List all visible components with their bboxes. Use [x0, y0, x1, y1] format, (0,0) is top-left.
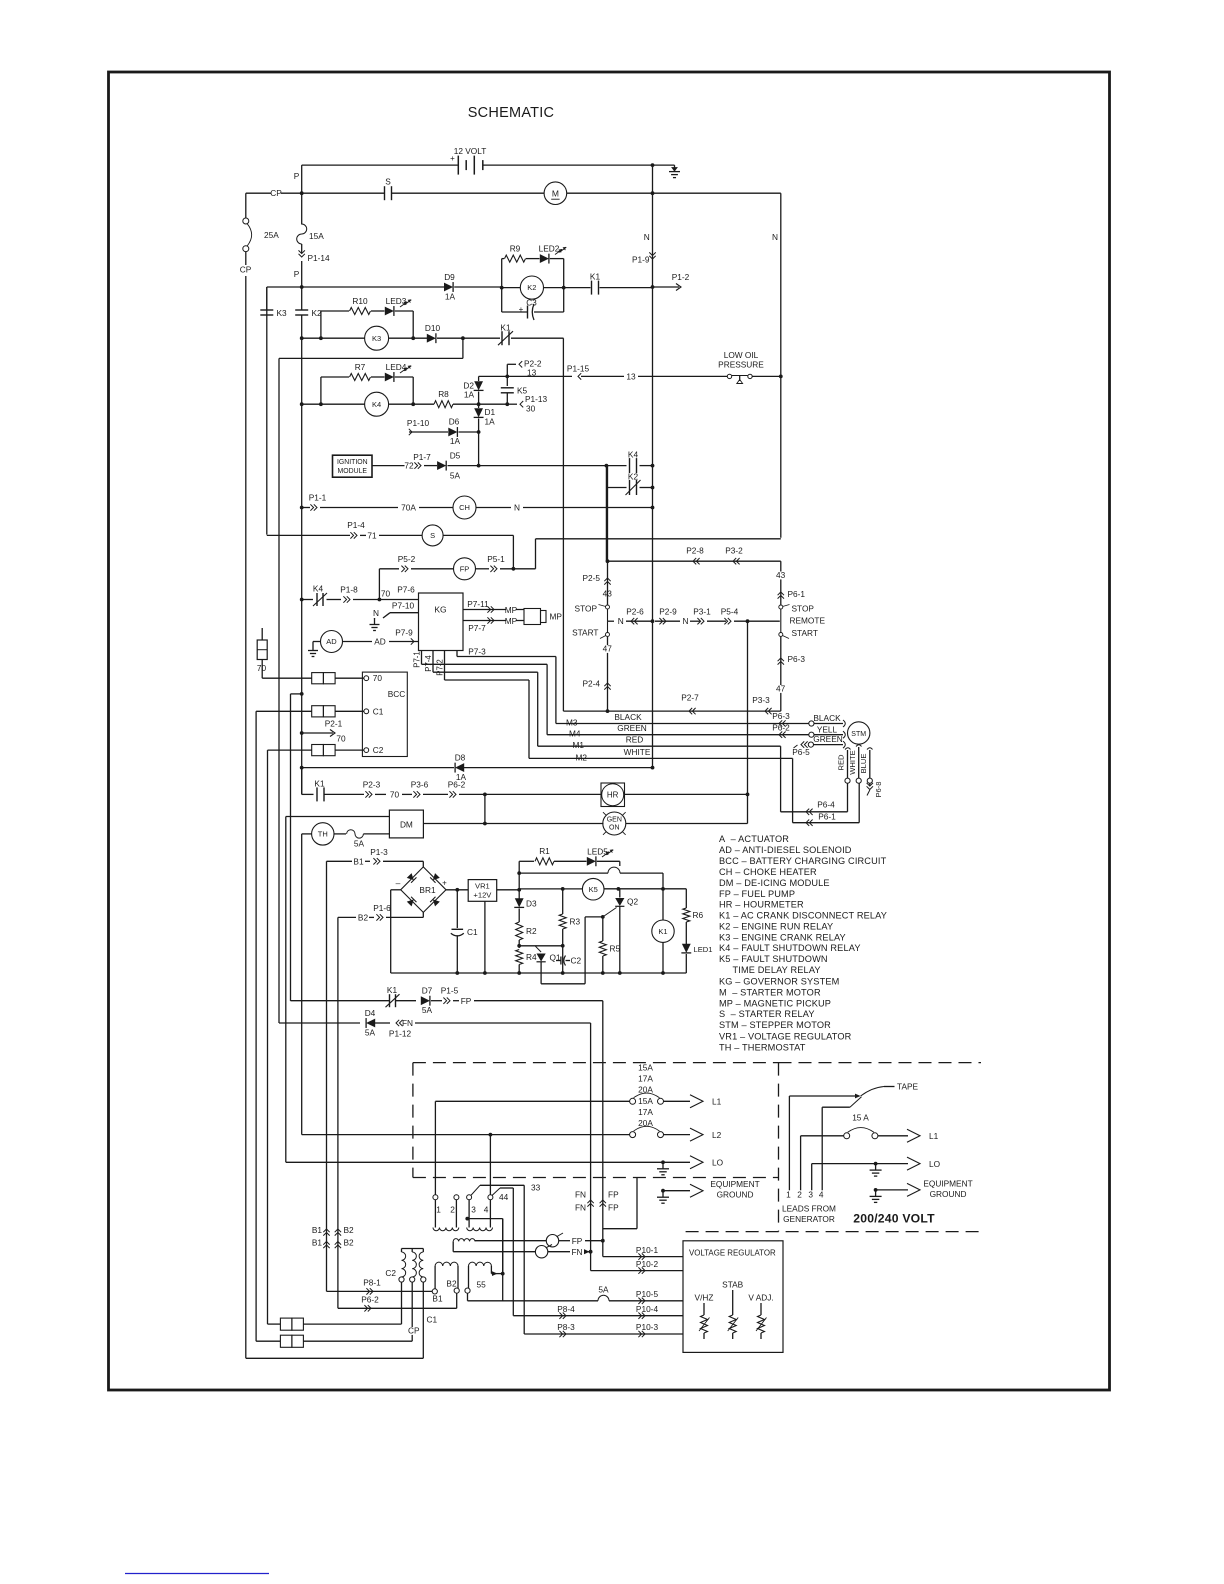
- relay K3 branch R10 LED3: [320, 311, 322, 338]
- wire P10-5 tap: [465, 1217, 469, 1221]
- svg-text:3: 3: [808, 1190, 813, 1200]
- LED1: [682, 944, 691, 953]
- svg-text:P1-8: P1-8: [340, 585, 358, 595]
- box IGNITION MODULE: [333, 455, 373, 477]
- svg-text:Q2: Q2: [627, 897, 638, 907]
- resistor R6: [685, 889, 687, 908]
- wire P2-8 P3-2 row: [608, 560, 781, 562]
- wire K3 step down: [462, 338, 464, 358]
- equipment ground row left: [661, 1189, 665, 1193]
- svg-text:K4: K4: [372, 400, 381, 409]
- anti-diesel AD: [312, 644, 314, 651]
- svg-text:R6: R6: [693, 910, 704, 920]
- svg-text:FP: FP: [608, 1190, 619, 1200]
- terminal block CP2: [256, 1340, 280, 1342]
- svg-text:P7-7: P7-7: [468, 623, 486, 633]
- wire FP feed row K1 D7: [291, 1000, 390, 1002]
- svg-text:15 A: 15 A: [852, 1113, 869, 1123]
- wire K5 row: [519, 872, 608, 874]
- wire P10-2 row: [590, 1252, 592, 1271]
- svg-text:K2 – ENGINE RUN RELAY: K2 – ENGINE RUN RELAY: [719, 922, 833, 932]
- svg-text:13: 13: [626, 371, 636, 381]
- svg-text:N: N: [373, 608, 379, 618]
- svg-text:P1-9: P1-9: [632, 255, 650, 265]
- svg-text:15A: 15A: [638, 1063, 653, 1073]
- svg-text:L1: L1: [712, 1097, 722, 1107]
- magnetic pickup MP symbol: [524, 609, 541, 625]
- connector P6-8: [869, 783, 871, 786]
- svg-text:70: 70: [381, 589, 391, 599]
- starter relay S: [422, 525, 443, 546]
- wire M row: [246, 192, 384, 194]
- switch STOP REMOTE START: [780, 561, 782, 604]
- svg-text:55: 55: [477, 1279, 487, 1289]
- svg-text:70: 70: [373, 673, 383, 683]
- svg-text:STOP: STOP: [792, 604, 815, 614]
- stepper GREEN connector P6-5: [794, 745, 798, 748]
- svg-text:MP: MP: [505, 605, 518, 615]
- svg-text:N: N: [514, 502, 520, 512]
- wire 33 tap: [471, 1185, 480, 1195]
- LED4: [385, 373, 394, 382]
- svg-text:R10: R10: [352, 296, 368, 306]
- svg-text:FN: FN: [402, 1018, 413, 1028]
- svg-text:STM – STEPPER MOTOR: STM – STEPPER MOTOR: [719, 1020, 831, 1030]
- svg-text:P1-1: P1-1: [309, 493, 327, 503]
- transformer winding C2 coils: [402, 1252, 406, 1277]
- wire K4 row: [300, 402, 304, 406]
- connector P1-14: [299, 254, 305, 257]
- current sensor FN: [453, 1251, 535, 1253]
- svg-text:C1: C1: [427, 1315, 438, 1325]
- svg-text:P6-4: P6-4: [817, 799, 835, 809]
- wire BR1 positive to VR1: [446, 889, 468, 891]
- svg-text:P7-9: P7-9: [395, 628, 413, 638]
- capacitor C2: [560, 957, 562, 965]
- bridge rectifier BR1: [422, 861, 424, 867]
- svg-text:L1: L1: [929, 1131, 939, 1141]
- svg-text:STAB: STAB: [722, 1280, 744, 1290]
- svg-text:1A: 1A: [450, 436, 461, 446]
- diode D2: [478, 376, 480, 381]
- wire S to FP junction: [512, 535, 514, 568]
- wire DM top feed: [285, 817, 287, 1163]
- transformer winding 3-4: [467, 1195, 472, 1200]
- svg-text:R5: R5: [610, 944, 621, 954]
- svg-text:5A: 5A: [422, 1005, 433, 1015]
- svg-text:BCC – BATTERY CHARGING CIRCUIT: BCC – BATTERY CHARGING CIRCUIT: [719, 856, 887, 866]
- svg-text:P8-4: P8-4: [557, 1304, 575, 1314]
- svg-text:MODULE: MODULE: [338, 468, 368, 475]
- svg-text:P6-1: P6-1: [788, 589, 806, 599]
- svg-text:IGNITION: IGNITION: [337, 459, 368, 466]
- svg-text:BLACK: BLACK: [614, 712, 642, 722]
- page border frame: [109, 72, 1110, 1390]
- wire P7-2 to M2: [445, 679, 530, 681]
- current sensor FP: [475, 1240, 546, 1242]
- contact K2 run: [605, 466, 607, 488]
- dashed generator box right: [779, 1062, 982, 1064]
- fuel pump FP: [454, 558, 476, 580]
- terminal block CP1: [268, 1323, 281, 1325]
- KG bottom pins P7-1 P7-4 P7-2 P7-3: [421, 651, 423, 665]
- svg-text:D6: D6: [449, 417, 460, 427]
- svg-text:P10-3: P10-3: [636, 1322, 659, 1332]
- svg-text:LED4: LED4: [386, 362, 407, 372]
- svg-text:43: 43: [603, 589, 613, 599]
- diode D5: [437, 461, 446, 470]
- svg-text:5A: 5A: [450, 471, 461, 481]
- svg-text:C1: C1: [373, 706, 384, 716]
- wire FP up to N: [535, 539, 537, 569]
- wire B1 link: [327, 1290, 433, 1292]
- svg-text:71: 71: [367, 531, 377, 541]
- svg-text:M1: M1: [573, 740, 585, 750]
- svg-text:FP: FP: [572, 1236, 583, 1246]
- wire LO row: [286, 1161, 690, 1163]
- fuse 5A thermostat: [347, 830, 364, 838]
- svg-text:CP: CP: [270, 188, 282, 198]
- svg-text:70: 70: [390, 790, 400, 800]
- wire 72 P1-7: [372, 465, 405, 467]
- svg-text:25A: 25A: [264, 230, 279, 240]
- relay coil K2: [520, 276, 543, 299]
- terminal block 2: [312, 706, 324, 717]
- svg-text:K4: K4: [313, 584, 324, 594]
- svg-text:LO: LO: [929, 1159, 941, 1169]
- svg-text:15A: 15A: [638, 1096, 653, 1106]
- svg-text:GEN: GEN: [607, 817, 622, 824]
- svg-text:BR1: BR1: [419, 885, 436, 895]
- svg-text:TIME DELAY RELAY: TIME DELAY RELAY: [719, 965, 821, 975]
- svg-text:B1: B1: [312, 1238, 323, 1248]
- wire BCC 70 row: [262, 677, 312, 679]
- svg-text:MP: MP: [505, 616, 518, 626]
- svg-text:44: 44: [499, 1192, 509, 1202]
- svg-text:1: 1: [436, 1205, 441, 1215]
- svg-text:VR1: VR1: [475, 881, 490, 890]
- relay coil K4: [365, 392, 389, 416]
- svg-text:P6-3: P6-3: [788, 654, 806, 664]
- relay K2 box branch R9 LED2: [501, 259, 503, 312]
- svg-text:P3-1: P3-1: [693, 607, 711, 617]
- wire LO right: [812, 1163, 908, 1165]
- svg-text:K3: K3: [372, 334, 381, 343]
- voltage regulator box: [683, 1241, 783, 1353]
- svg-text:M3: M3: [566, 718, 578, 728]
- ground top right: [674, 165, 676, 172]
- svg-text:P7-2: P7-2: [436, 659, 445, 675]
- svg-text:70A: 70A: [401, 502, 416, 512]
- svg-text:1A: 1A: [485, 417, 496, 427]
- svg-text:P1-6: P1-6: [373, 903, 391, 913]
- svg-text:LOW OIL: LOW OIL: [724, 350, 759, 360]
- svg-text:WHITE: WHITE: [624, 747, 651, 757]
- breaker L2 row: [302, 1134, 630, 1136]
- svg-text:YELL: YELL: [817, 724, 838, 734]
- wire stop start ladder left: [607, 466, 609, 605]
- svg-text:K5 – FAULT SHUTDOWN: K5 – FAULT SHUTDOWN: [719, 954, 828, 964]
- svg-text:D10: D10: [425, 323, 441, 333]
- svg-text:P1-14: P1-14: [308, 253, 331, 263]
- svg-text:EQUIPMENT: EQUIPMENT: [923, 1179, 972, 1189]
- wire P7-1 to M4: [422, 663, 548, 665]
- lamp GEN ON: [603, 812, 626, 835]
- ground LO: [662, 1162, 664, 1169]
- svg-text:P3-3: P3-3: [752, 695, 770, 705]
- svg-text:K1 – AC CRANK DISCONNECT RELAY: K1 – AC CRANK DISCONNECT RELAY: [719, 911, 887, 921]
- wire B1 row P1-3: [326, 861, 328, 1291]
- svg-text:72: 72: [404, 461, 414, 471]
- svg-text:WHITE: WHITE: [848, 750, 857, 774]
- svg-text:HR: HR: [607, 791, 619, 800]
- fuse 15A: [297, 224, 307, 244]
- battery charging circuit BCC box: [362, 672, 407, 756]
- resistor R1 row: [519, 860, 534, 862]
- connector P6-4 row: [780, 746, 782, 812]
- breaker L1 row: [435, 1100, 629, 1102]
- svg-text:STOP: STOP: [575, 604, 598, 614]
- wire BCC C1 row: [255, 711, 257, 1341]
- svg-text:P2-5: P2-5: [582, 573, 600, 583]
- svg-text:P7-3: P7-3: [468, 647, 486, 657]
- svg-text:FP – FUEL PUMP: FP – FUEL PUMP: [719, 889, 795, 899]
- switch TAPE: [789, 1095, 858, 1097]
- svg-text:17A: 17A: [638, 1074, 653, 1084]
- svg-text:CP: CP: [240, 265, 252, 275]
- wire 44 tap: [492, 1188, 500, 1196]
- wire P8-3 P10-3 row: [524, 1333, 683, 1335]
- svg-text:P2-9: P2-9: [659, 607, 677, 617]
- svg-text:P1-12: P1-12: [389, 1029, 412, 1039]
- svg-text:TH: TH: [318, 830, 328, 839]
- svg-text:P1-13: P1-13: [525, 394, 548, 404]
- svg-text:B1: B1: [312, 1225, 323, 1235]
- contact K1 crank: [463, 337, 500, 339]
- svg-text:TAPE: TAPE: [897, 1082, 919, 1092]
- svg-text:D9: D9: [444, 272, 455, 282]
- diode D9: [444, 283, 453, 292]
- svg-text:CH: CH: [459, 503, 470, 512]
- svg-text:BCC: BCC: [388, 689, 406, 699]
- svg-text:P2-7: P2-7: [681, 693, 699, 703]
- svg-text:GROUND: GROUND: [930, 1189, 967, 1199]
- svg-text:P1-5: P1-5: [441, 986, 459, 996]
- svg-text:A – ACTUATOR: A – ACTUATOR: [719, 834, 789, 844]
- svg-text:K1: K1: [658, 927, 667, 936]
- svg-text:K5: K5: [589, 885, 598, 894]
- wire 47 column: [607, 637, 609, 711]
- svg-text:P6-1: P6-1: [818, 811, 836, 821]
- svg-text:R4: R4: [526, 952, 537, 962]
- wire +12V node column: [517, 888, 521, 892]
- wire FN feed row D4: [278, 1022, 280, 1024]
- svg-text:ON: ON: [609, 825, 620, 832]
- svg-text:P2-1: P2-1: [325, 719, 343, 729]
- svg-text:AD: AD: [326, 637, 337, 646]
- wire K1 P2-3 row: [301, 768, 303, 795]
- svg-text:P7-4: P7-4: [424, 655, 433, 672]
- wire B2 link: [338, 1307, 457, 1309]
- svg-text:FN: FN: [571, 1247, 582, 1257]
- svg-text:K4: K4: [628, 450, 639, 460]
- svg-text:P: P: [294, 269, 300, 279]
- svg-text:START: START: [792, 628, 818, 638]
- svg-text:C2: C2: [373, 745, 384, 755]
- de-icing module DM: [389, 810, 423, 838]
- svg-text:43: 43: [776, 570, 786, 580]
- svg-text:FN: FN: [575, 1203, 586, 1213]
- svg-text:DM – DE-ICING MODULE: DM – DE-ICING MODULE: [719, 878, 830, 888]
- wire P7-3 to M3: [457, 656, 556, 658]
- wire N bus right: [780, 193, 782, 538]
- svg-text:S: S: [385, 177, 391, 187]
- svg-text:P2-6: P2-6: [626, 607, 644, 617]
- svg-text:P10-5: P10-5: [636, 1289, 659, 1299]
- svg-text:+: +: [442, 879, 447, 888]
- svg-text:REMOTE: REMOTE: [790, 616, 826, 626]
- svg-text:K3 – ENGINE CRANK RELAY: K3 – ENGINE CRANK RELAY: [719, 933, 846, 943]
- svg-text:R7: R7: [355, 362, 366, 372]
- svg-text:START: START: [572, 628, 598, 638]
- svg-text:N: N: [618, 616, 624, 626]
- svg-text:HR – HOURMETER: HR – HOURMETER: [719, 900, 804, 910]
- svg-text:47: 47: [603, 644, 613, 654]
- wire Q2 gate node: [585, 916, 603, 918]
- svg-text:M2: M2: [576, 752, 588, 762]
- svg-text:P7-10: P7-10: [392, 601, 415, 611]
- svg-text:GREEN: GREEN: [617, 723, 647, 733]
- svg-text:PRESSURE: PRESSURE: [718, 360, 764, 370]
- svg-text:GENERATOR: GENERATOR: [783, 1214, 835, 1224]
- svg-text:P6-3: P6-3: [772, 711, 790, 721]
- svg-text:EQUIPMENT: EQUIPMENT: [710, 1179, 759, 1189]
- svg-text:N: N: [683, 616, 689, 626]
- svg-text:N: N: [644, 232, 650, 242]
- svg-text:4: 4: [484, 1205, 489, 1215]
- svg-text:LO: LO: [712, 1158, 724, 1168]
- svg-text:P2-3: P2-3: [363, 780, 381, 790]
- svg-text:12 VOLT: 12 VOLT: [454, 146, 487, 156]
- svg-text:B1: B1: [432, 1293, 443, 1303]
- resistor R2: [516, 922, 523, 940]
- breaker CP 25A: [245, 193, 247, 218]
- terminal block 3: [312, 745, 324, 756]
- svg-text:DM: DM: [400, 820, 413, 830]
- svg-text:K5: K5: [517, 386, 528, 396]
- svg-text:P7-1: P7-1: [413, 651, 422, 667]
- generator leads 200/240: [788, 1096, 790, 1190]
- svg-text:BLUE: BLUE: [859, 754, 868, 774]
- svg-text:S – STARTER RELAY: S – STARTER RELAY: [719, 1009, 815, 1019]
- svg-text:P7-6: P7-6: [397, 585, 415, 595]
- svg-text:P1-10: P1-10: [407, 418, 430, 428]
- svg-text:R9: R9: [510, 244, 521, 254]
- contact K4 shutdown: [606, 465, 626, 467]
- thermostat TH: [302, 833, 312, 835]
- capacitor K2 coil: [295, 309, 308, 311]
- choke heater CH: [453, 496, 476, 519]
- resistor R8: [434, 401, 453, 408]
- wire 55 to P10-5: [467, 1293, 469, 1301]
- connector P2-2: [507, 363, 516, 365]
- svg-text:K3: K3: [277, 308, 288, 318]
- svg-text:L2: L2: [712, 1130, 722, 1140]
- svg-text:C1: C1: [467, 927, 478, 937]
- svg-text:B2: B2: [358, 912, 369, 922]
- svg-text:GREEN: GREEN: [813, 734, 843, 744]
- connector P1-2: [651, 285, 655, 289]
- svg-text:P6-2: P6-2: [361, 1294, 379, 1304]
- capacitor C1: [456, 890, 458, 928]
- wire CP bottom: [246, 1357, 423, 1359]
- svg-text:2: 2: [450, 1205, 455, 1215]
- svg-text:KG – GOVERNOR SYSTEM: KG – GOVERNOR SYSTEM: [719, 977, 839, 987]
- svg-text:1A: 1A: [464, 390, 475, 400]
- relay K1 coil: [662, 889, 664, 920]
- svg-text:P6-2: P6-2: [448, 780, 466, 790]
- svg-text:N: N: [772, 232, 778, 242]
- svg-text:4: 4: [819, 1190, 824, 1200]
- svg-text:RED: RED: [837, 754, 846, 771]
- svg-text:VOLTAGE REGULATOR: VOLTAGE REGULATOR: [689, 1249, 776, 1258]
- svg-text:2: 2: [797, 1190, 802, 1200]
- svg-text:P8-3: P8-3: [557, 1322, 575, 1332]
- svg-text:B2: B2: [344, 1225, 355, 1235]
- svg-text:S: S: [430, 531, 435, 540]
- svg-text:P1-4: P1-4: [347, 520, 365, 530]
- svg-text:C2: C2: [571, 956, 582, 966]
- wire BCC C2 row: [267, 750, 269, 1324]
- wire P10-5 row: [468, 1300, 599, 1302]
- svg-text:M – STARTER MOTOR: M – STARTER MOTOR: [719, 988, 821, 998]
- svg-text:33: 33: [531, 1183, 541, 1193]
- wire P10-1 row: [602, 1241, 604, 1257]
- svg-text:SCHEMATIC: SCHEMATIC: [468, 105, 555, 121]
- wire N bus mid: [652, 165, 654, 768]
- svg-text:K4 – FAULT SHUTDOWN RELAY: K4 – FAULT SHUTDOWN RELAY: [719, 943, 861, 953]
- LED5: [587, 857, 596, 866]
- transformer winding B1 B2: [435, 1262, 458, 1266]
- svg-text:R3: R3: [570, 917, 581, 927]
- stepper motor STM: [848, 722, 870, 744]
- svg-text:FP: FP: [460, 564, 470, 573]
- svg-text:D8: D8: [455, 752, 466, 762]
- svg-text:P2-4: P2-4: [582, 679, 600, 689]
- svg-text:P6-8: P6-8: [874, 781, 883, 797]
- diode D8 row: [300, 766, 304, 770]
- starter motor M: [544, 182, 567, 205]
- governor box KG: [419, 593, 464, 651]
- contact K1 top: [564, 287, 591, 289]
- svg-text:M4: M4: [569, 729, 581, 739]
- diode D10: [427, 334, 436, 343]
- svg-text:LED5: LED5: [587, 847, 608, 857]
- svg-text:B2: B2: [446, 1278, 457, 1288]
- svg-text:5A: 5A: [365, 1028, 376, 1038]
- svg-text:LEADS FROM: LEADS FROM: [782, 1204, 836, 1214]
- svg-text:B2: B2: [344, 1238, 355, 1248]
- transformer winding 1-2: [433, 1195, 438, 1200]
- svg-text:LED2: LED2: [539, 244, 560, 254]
- svg-text:3: 3: [471, 1205, 476, 1215]
- wire gen sense drop: [636, 1178, 638, 1229]
- dashed generator box left: [413, 1062, 779, 1064]
- svg-text:K1: K1: [387, 985, 398, 995]
- wire B2 row P1-6: [337, 917, 339, 1308]
- svg-text:D5: D5: [450, 450, 461, 460]
- svg-text:200/240 VOLT: 200/240 VOLT: [853, 1212, 935, 1226]
